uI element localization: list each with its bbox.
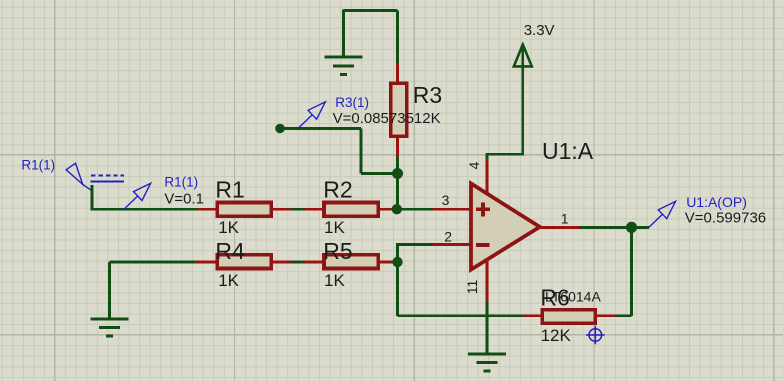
node junction row2 [392,257,402,267]
svg-text:1: 1 [561,210,569,226]
svg-text:4: 4 [466,161,482,169]
svg-text:2: 2 [444,229,452,245]
node R3 junction [392,168,403,179]
svg-text:3.3V: 3.3V [524,22,555,39]
wire row2 left [110,261,196,264]
svg-text:1K: 1K [324,218,345,237]
wire up to pin2 elbow [396,245,399,262]
pin 3 op-amp [432,208,470,211]
svg-text:R1: R1 [215,177,244,203]
pin R5 left [305,261,323,264]
probe generator marker R1(1) [66,163,92,191]
pin R5 right [380,261,392,264]
resistor R6 [542,310,595,324]
svg-text:V=0.1: V=0.1 [164,191,204,208]
svg-text:R3(1): R3(1) [335,95,369,110]
svg-text:V=0.08573512K: V=0.08573512K [333,110,441,127]
wire between R4 and R5 [291,261,305,264]
resistor R4 [217,255,271,269]
pin R1 left [197,208,216,211]
pin R6 left [523,314,542,317]
wire top horizontal from ground to R3 top [344,9,398,12]
op-amp plus sign [476,202,490,216]
svg-text:R1(1): R1(1) [164,174,198,189]
svg-text:R5: R5 [323,238,352,264]
svg-text:11: 11 [464,280,480,295]
wire node row2 [392,261,398,264]
wire probe branch horizontal [280,127,361,130]
wire feedback right horizontal [616,314,632,317]
wire pin11 to ground [486,302,489,353]
probe R1(1) [124,183,151,209]
wire row2 ground drop [108,262,111,318]
probe U1:A(OP) [649,201,676,227]
svg-text:V=0.599736: V=0.599736 [685,210,766,227]
svg-text:1K: 1K [218,218,239,237]
probe R3(1) [299,102,326,128]
pin R2 right [380,208,392,211]
ground (bottom, under op-amp) [468,354,506,371]
wire ground1 drop [342,9,345,56]
resistor R2 [324,203,378,217]
svg-text:R1(1): R1(1) [21,158,55,173]
resistor R3 [391,83,407,136]
generator DC source symbol [91,176,124,182]
wire output [579,226,649,229]
svg-text:R2: R2 [323,177,352,203]
wire R3 top vertical [396,11,399,63]
wire probe branch vertical [360,129,363,174]
wire pin4 elbow [486,154,489,159]
wire pin4 horizontal [486,153,523,156]
svg-text:R4: R4 [215,238,245,264]
wire 3.3V vertical [521,45,524,156]
svg-text:12K: 12K [541,326,572,345]
svg-text:R6: R6 [540,285,569,311]
power 3.3V arrow [514,45,532,67]
pin 2 op-amp [432,243,470,246]
ground (left, under R4 wire) [91,319,129,336]
marker crosshair [586,326,605,345]
pin R6 right [596,314,615,317]
svg-text:1K: 1K [218,271,239,290]
wire generator drop [91,185,94,209]
wire row1 left [91,208,197,211]
pin 1 op-amp output [541,226,579,229]
wire feedback bottom horizontal [398,314,523,317]
pin 4 op-amp [486,158,489,193]
wire feedback right vertical [630,227,633,315]
pin R3 top [396,63,399,83]
op-amp U1:A [471,184,540,270]
pin R3 bottom [396,137,399,157]
wire feedback down from row2 node [396,262,399,316]
pin R1 right [273,208,291,211]
pin R2 left [305,208,323,211]
svg-text:R3: R3 [413,82,442,108]
wire between R1 and R2 [291,208,305,211]
node wire-end dot [275,124,285,134]
op-amp minus sign [476,243,490,247]
pin 11 op-amp [486,258,489,302]
wire probe branch to node [361,172,398,175]
node output junction [626,222,637,233]
node junction row1 [392,204,402,214]
pin R4 left [195,261,216,264]
wire node row1 [392,208,432,211]
svg-text:1K: 1K [324,271,345,290]
svg-text:U1:A(OP): U1:A(OP) [686,194,747,210]
wire pin2 horizontal [396,243,432,246]
svg-text:U1:A: U1:A [542,138,594,164]
resistor R1 [217,203,271,217]
wire R3 bottom vertical [396,157,399,210]
pin R4 right [273,261,291,264]
svg-text:3: 3 [442,192,450,208]
ground (top, near R3) [325,57,363,74]
resistor R5 [324,255,378,269]
